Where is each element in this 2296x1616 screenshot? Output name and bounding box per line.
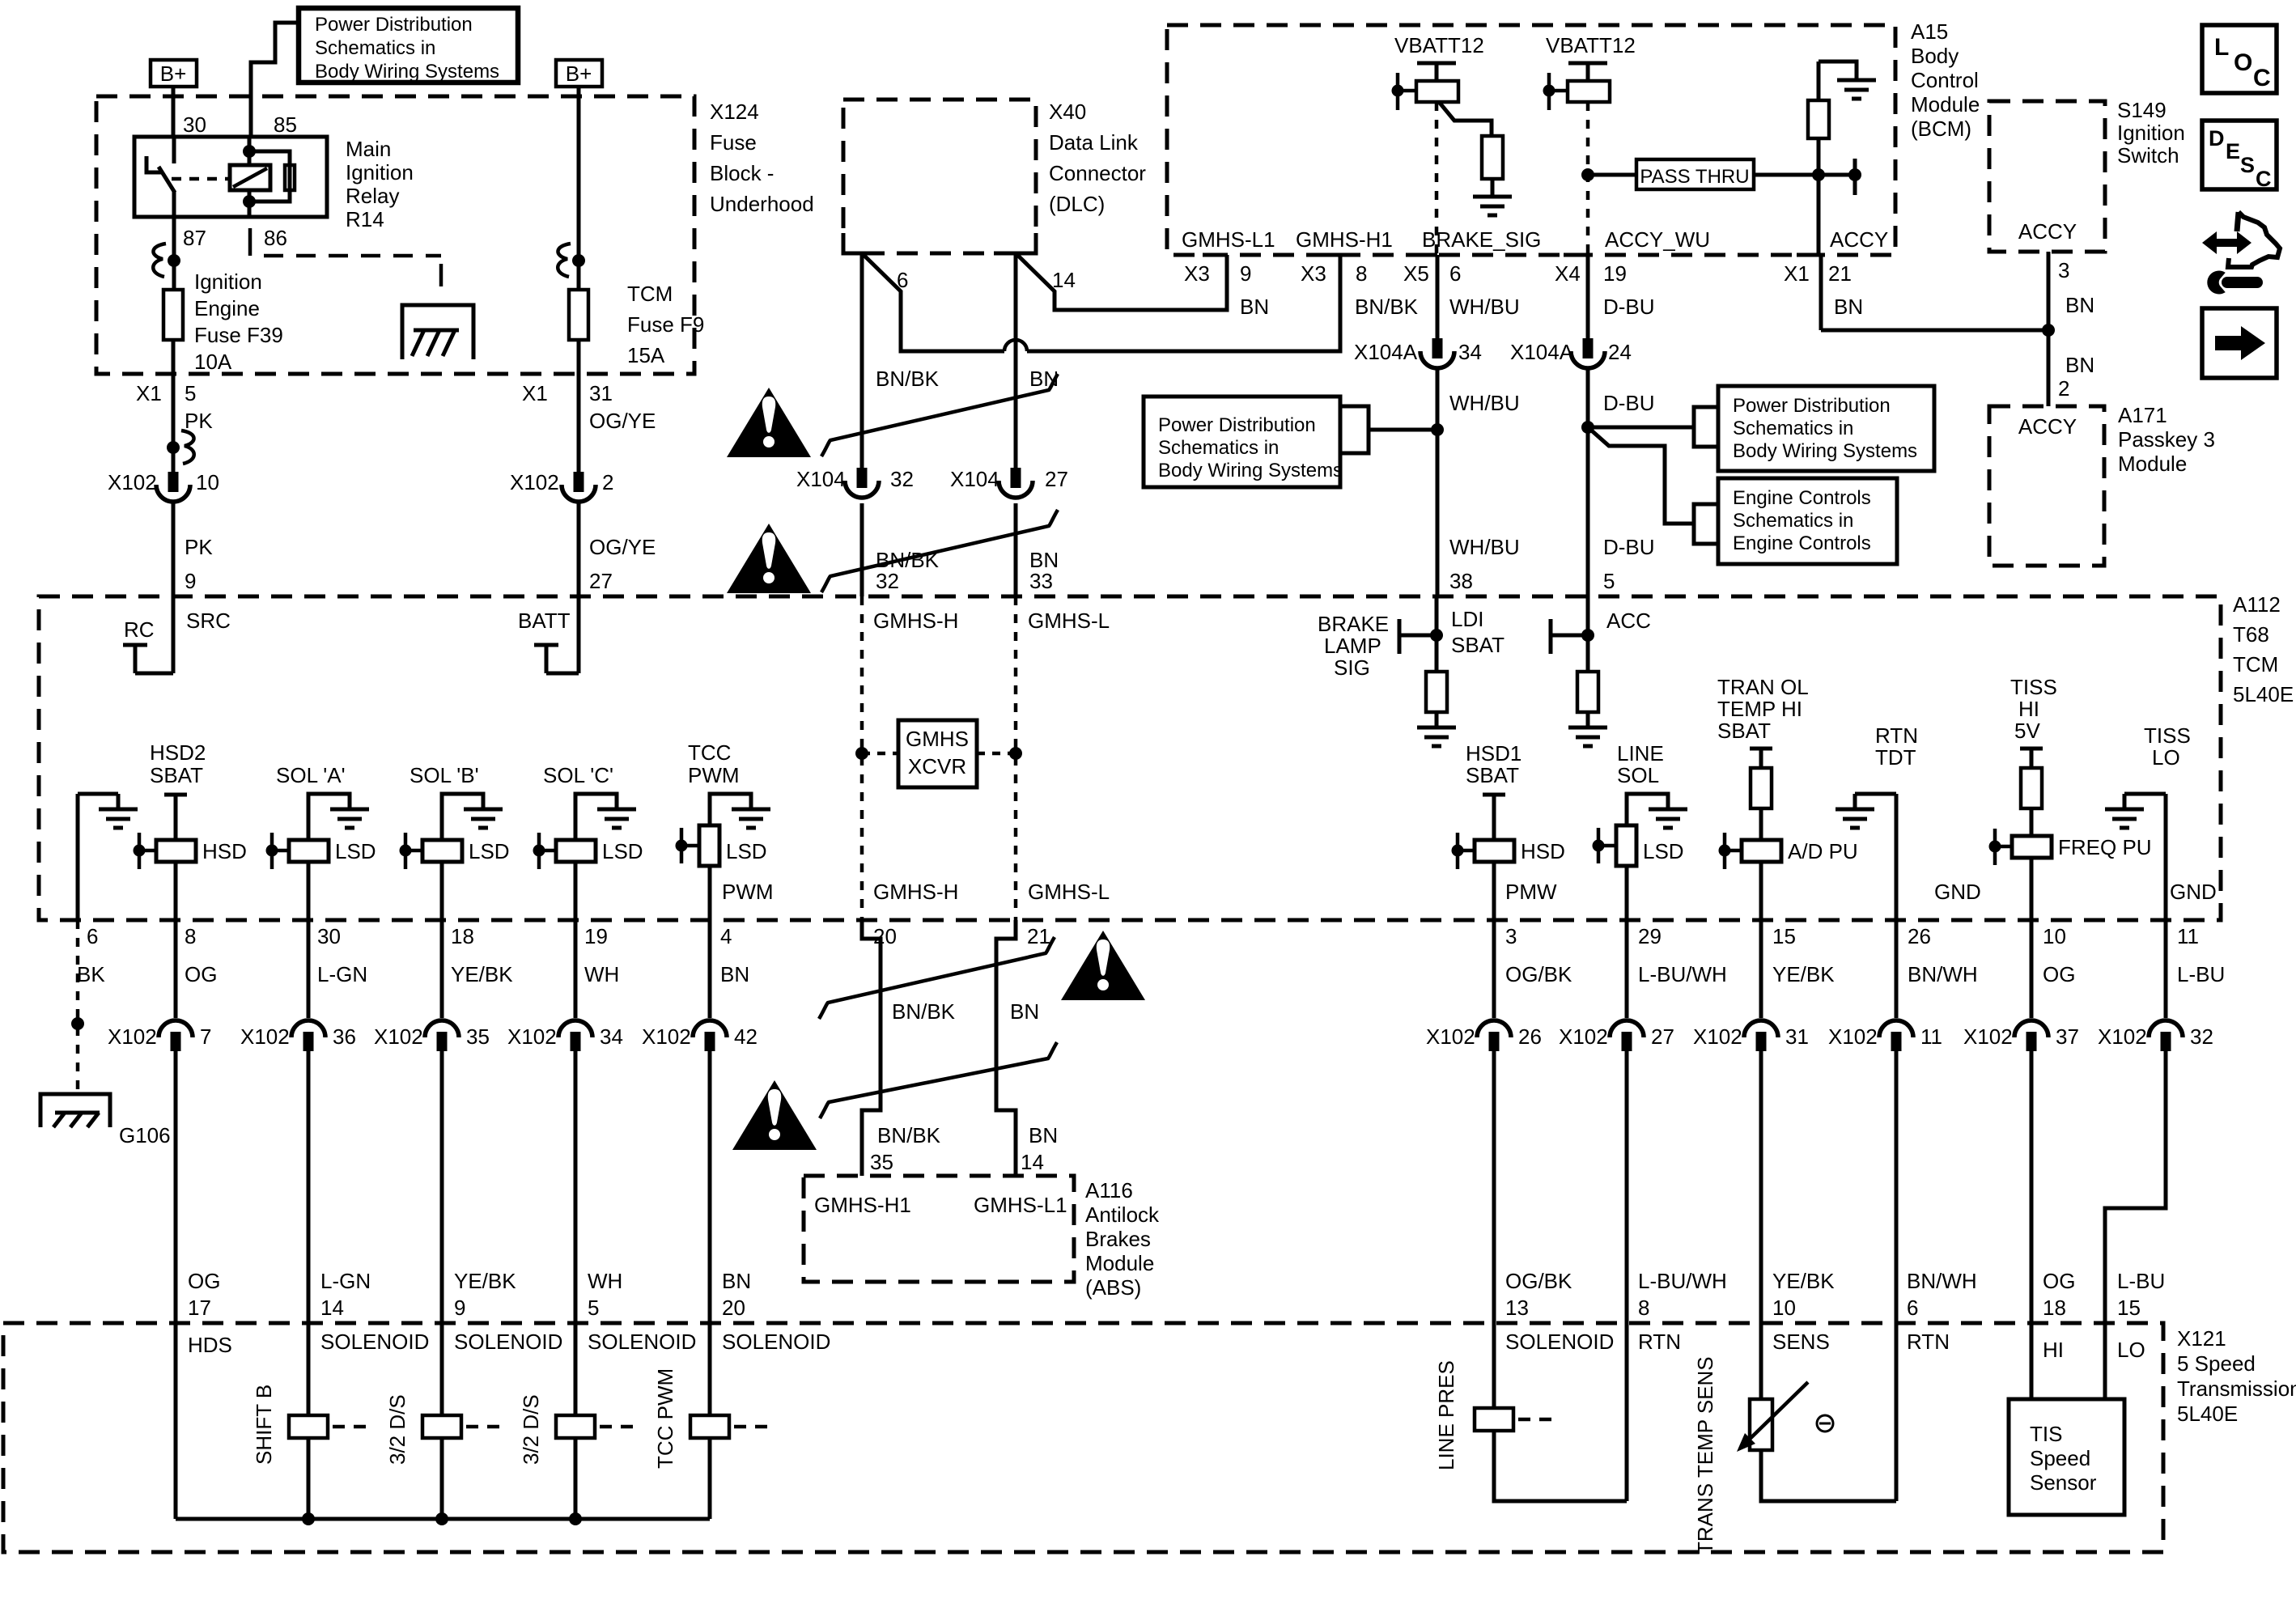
label SOL 'C': [543, 763, 613, 787]
svg-text:27: 27: [1045, 467, 1068, 491]
svg-text:SOL 'A': SOL 'A': [276, 763, 346, 787]
svg-text:18: 18: [451, 924, 474, 948]
svg-text:X3: X3: [1184, 261, 1210, 286]
svg-text:WH/BU: WH/BU: [1449, 535, 1520, 559]
svg-text:Schematics in: Schematics in: [1733, 418, 1853, 439]
svg-text:18: 18: [2043, 1296, 2066, 1320]
label X121 5 Speed Transmission 5L40E: [2177, 1326, 2296, 1426]
svg-text:GMHS-H: GMHS-H: [873, 880, 958, 904]
svg-text:RTN: RTN: [1638, 1330, 1681, 1354]
TCM pin name ACC: [1606, 609, 1651, 633]
svg-text:B+: B+: [160, 62, 187, 86]
svg-text:OG/YE: OG/YE: [589, 409, 656, 433]
wire L-BU/WH return: [1625, 1051, 1629, 1501]
wire B+ to TCM fuse F9: [577, 87, 581, 290]
relay R14 box: [134, 137, 327, 217]
svg-text:6: 6: [87, 924, 98, 948]
TCM BRAKE internal tap: [1399, 596, 1443, 672]
inline connector X102 pin 42: [642, 1020, 758, 1051]
wire WH to 3/2 D/S solenoid: [574, 1051, 578, 1415]
svg-text:GND: GND: [1934, 880, 1981, 904]
ACCY_WU internal dashed wire: [1586, 102, 1590, 255]
svg-text:31: 31: [1785, 1024, 1809, 1049]
connector labels X1 5 (left): [136, 381, 196, 405]
wire YE/BK to trans temp sensor: [1759, 1051, 1763, 1399]
svg-text:BK: BK: [77, 962, 105, 986]
TCM internal label PWM: [722, 880, 774, 904]
svg-text:OG: OG: [2043, 962, 2075, 986]
svg-text:86: 86: [264, 226, 287, 250]
svg-text:X40: X40: [1049, 100, 1086, 124]
label SOL 'A': [276, 763, 346, 787]
wire X104A-24 to TCM pin 5: [1581, 370, 1594, 596]
svg-text:X124: X124: [710, 100, 759, 124]
TCM ACC internal tap: [1551, 596, 1594, 672]
svg-text:3/2 D/S: 3/2 D/S: [519, 1394, 543, 1465]
TCM terminal RC: [123, 596, 173, 673]
svg-text:(ABS): (ABS): [1085, 1275, 1141, 1300]
svg-text:SRC: SRC: [186, 609, 231, 633]
wire OG TCM pin 8 to X102: [174, 920, 178, 1018]
svg-text:SOL 'B': SOL 'B': [410, 763, 479, 787]
PASS THRU line to ACCY node: [1754, 159, 1861, 195]
wire BN/WH TCM pin 26 to X102: [1895, 920, 1899, 1018]
svg-text:10: 10: [1772, 1296, 1796, 1320]
wire colors BN/BK 35 BN 14 (ABS): [870, 1123, 1058, 1174]
wire color PK 9: [185, 535, 213, 593]
wire L-GN to shift B solenoid: [307, 1051, 311, 1415]
svg-text:OG: OG: [188, 1269, 220, 1293]
svg-text:ACCY: ACCY: [1830, 227, 1888, 252]
svg-text:(BCM): (BCM): [1911, 117, 1971, 141]
svg-text:X1: X1: [1784, 261, 1810, 286]
svg-text:O: O: [2234, 49, 2252, 76]
svg-text:Ignition: Ignition: [194, 269, 262, 294]
wire colors BN/BK BN (lower): [892, 999, 1039, 1024]
svg-text:TISS: TISS: [2010, 675, 2057, 699]
svg-text:X104: X104: [796, 467, 846, 491]
svg-text:37: 37: [2056, 1024, 2079, 1049]
svg-text:SBAT: SBAT: [1466, 763, 1519, 787]
label A171 Passkey 3 Module: [2118, 403, 2215, 476]
BRAKE_SIG internal dashed wire: [1435, 102, 1439, 255]
driver LSD (SOL B): [400, 833, 510, 869]
wire X104A-34 to TCM pin 38: [1431, 370, 1444, 596]
svg-text:X102: X102: [510, 470, 559, 494]
svg-text:TCC PWM: TCC PWM: [653, 1368, 677, 1469]
DLC pin 14 tap to BCM GMHS-L1: [1016, 253, 1227, 310]
svg-text:A116: A116: [1085, 1178, 1133, 1202]
svg-text:14: 14: [1021, 1150, 1044, 1174]
svg-text:HI: HI: [2043, 1338, 2064, 1362]
svg-text:SOLENOID: SOLENOID: [1505, 1330, 1614, 1354]
icon vehicle with arrows: [2202, 212, 2280, 267]
svg-text:HSD1: HSD1: [1466, 741, 1521, 766]
SOL B ground loop: [442, 794, 503, 840]
splice clip on PK wire: [167, 431, 194, 464]
svg-text:3: 3: [1505, 924, 1517, 948]
SOL C ground loop: [575, 794, 636, 840]
wire OG/BK to line pres solenoid: [1492, 1051, 1496, 1408]
svg-text:Sensor: Sensor: [2030, 1470, 2097, 1495]
svg-text:X121: X121: [2177, 1326, 2226, 1351]
svg-text:Body Wiring Systems: Body Wiring Systems: [315, 61, 499, 83]
svg-text:OG/BK: OG/BK: [1505, 962, 1572, 986]
svg-text:HSD: HSD: [1521, 839, 1565, 863]
svg-text:Fuse: Fuse: [710, 130, 757, 155]
svg-text:27: 27: [589, 569, 613, 593]
svg-text:X104: X104: [950, 467, 999, 491]
wire 3/2 D/S second to rail: [574, 1438, 578, 1519]
svg-text:4: 4: [720, 924, 732, 948]
svg-text:OG/BK: OG/BK: [1505, 1269, 1572, 1293]
svg-text:Module: Module: [1911, 92, 1980, 117]
svg-text:GND: GND: [2170, 880, 2217, 904]
svg-text:YE/BK: YE/BK: [1772, 1269, 1835, 1293]
GMHS-H internal dashed wire: [860, 596, 864, 920]
wire BN from DLC pin 14: [1014, 253, 1018, 468]
svg-text:LDI: LDI: [1451, 607, 1483, 631]
svg-text:Power Distribution: Power Distribution: [1733, 395, 1891, 417]
svg-text:8: 8: [185, 924, 196, 948]
svg-text:SBAT: SBAT: [1451, 633, 1504, 657]
svg-text:X104A: X104A: [1354, 340, 1418, 364]
svg-text:5L40E: 5L40E: [2177, 1402, 2238, 1426]
wire color D-BU 5: [1603, 535, 1655, 593]
wire BCM X4-19 to X104A: [1586, 255, 1590, 338]
TCM internal label GND (RTN): [1934, 880, 1981, 904]
internal resistor to ground (BRAKE_SIG): [1439, 102, 1512, 215]
svg-text:33: 33: [1029, 569, 1053, 593]
label SOL 'B': [410, 763, 479, 787]
svg-text:BN: BN: [1010, 999, 1039, 1024]
svg-text:Schematics in: Schematics in: [1158, 437, 1279, 459]
svg-text:YE/BK: YE/BK: [1772, 962, 1835, 986]
svg-text:L-BU/WH: L-BU/WH: [1638, 962, 1727, 986]
splice clip at fuse F39 input: [153, 244, 180, 277]
svg-text:VBATT12: VBATT12: [1546, 33, 1636, 57]
svg-text:TEMP HI: TEMP HI: [1717, 697, 1802, 721]
wire HSD2 to TCM pin 8: [174, 862, 178, 920]
wire A/D PU to TCM pin 15: [1759, 862, 1763, 920]
svg-text:TCM: TCM: [627, 282, 673, 306]
svg-text:8: 8: [1356, 261, 1367, 286]
svg-text:Passkey 3: Passkey 3: [2118, 427, 2215, 452]
label Main Ignition Relay R14: [346, 137, 414, 231]
svg-text:X1: X1: [136, 381, 162, 405]
svg-text:42: 42: [734, 1024, 758, 1049]
wire shift B to rail: [307, 1438, 311, 1519]
HSD2 SBAT stub: [164, 795, 187, 840]
wire BCM X1-21 ACCY to junction: [1821, 255, 2055, 337]
svg-text:L-BU/WH: L-BU/WH: [1638, 1269, 1727, 1293]
TCM terminal BATT: [518, 596, 579, 673]
svg-text:TCM: TCM: [2233, 652, 2278, 677]
wire X104-32 to TCM pin 32: [860, 503, 864, 596]
svg-text:FREQ PU: FREQ PU: [2058, 835, 2152, 859]
svg-text:(DLC): (DLC): [1049, 192, 1105, 216]
TIS speed sensor box: [2009, 1399, 2124, 1515]
svg-text:Switch: Switch: [2117, 143, 2179, 168]
svg-text:Fuse F9: Fuse F9: [627, 312, 704, 337]
twisted pair marker (upper): [821, 374, 1058, 456]
warning triangle (pin 21): [1061, 931, 1145, 1000]
VBATT12 feed (left): [1392, 33, 1484, 110]
svg-text:A/D PU: A/D PU: [1788, 839, 1858, 863]
svg-text:X102: X102: [1963, 1024, 2013, 1049]
svg-text:E: E: [2226, 139, 2240, 163]
ABS pin names: [814, 1193, 1067, 1217]
svg-text:BN/BK: BN/BK: [876, 367, 940, 391]
warning triangle (upper): [727, 388, 811, 457]
svg-text:26: 26: [1908, 924, 1931, 948]
svg-text:TDT: TDT: [1875, 745, 1916, 770]
svg-text:Brakes: Brakes: [1085, 1227, 1151, 1251]
label S149 Ignition Switch: [2117, 98, 2185, 168]
fuse F39: [163, 290, 183, 340]
svg-text:2: 2: [602, 470, 613, 494]
inline connector X102 pin 26: [1426, 1020, 1542, 1051]
warning triangle (second): [727, 524, 811, 593]
svg-text:Body: Body: [1911, 44, 1959, 68]
svg-text:3: 3: [2058, 258, 2069, 282]
wire from relay coil 85 to reference box (staircase): [251, 23, 299, 137]
svg-text:LSD: LSD: [1643, 839, 1684, 863]
svg-text:GMHS-L1: GMHS-L1: [1182, 227, 1275, 252]
svg-text:L: L: [2214, 34, 2229, 61]
wire SOL C to TCM pin 19: [574, 862, 578, 920]
svg-text:Body Wiring Systems: Body Wiring Systems: [1158, 460, 1343, 481]
svg-text:X4: X4: [1555, 261, 1581, 286]
TISS LO wire to ground: [2105, 794, 2166, 920]
svg-text:X3: X3: [1301, 261, 1326, 286]
label HSD1 SBAT: [1466, 741, 1521, 787]
wire B+ to relay pin 30: [172, 87, 176, 137]
wire BN/BK from DLC pin 6: [860, 253, 864, 468]
TISS HI stub and resistor: [2020, 749, 2043, 836]
svg-text:X5: X5: [1403, 261, 1429, 286]
wire OG to 5-speed transmission: [174, 1051, 178, 1519]
inline connector X102 pin 32: [2098, 1020, 2213, 1051]
5 speed transmission X121 dashed box: [3, 1323, 2163, 1552]
A171 ACCY pin label: [2018, 414, 2077, 439]
wire YE/BK to 3/2 D/S solenoid: [440, 1051, 444, 1415]
svg-text:RTN: RTN: [1907, 1330, 1950, 1354]
svg-text:34: 34: [600, 1024, 623, 1049]
inline connector X104A pin 24: [1510, 338, 1632, 368]
driver LSD (TCC PWM): [676, 825, 767, 866]
svg-text:YE/BK: YE/BK: [454, 1269, 516, 1293]
TCM pin name SRC: [186, 609, 231, 633]
svg-text:OG/YE: OG/YE: [589, 535, 656, 559]
svg-text:HSD2: HSD2: [150, 740, 206, 765]
svg-text:7: 7: [200, 1024, 211, 1049]
svg-text:VBATT12: VBATT12: [1394, 33, 1484, 57]
label TISS LO: [2144, 723, 2191, 770]
svg-text:10: 10: [196, 470, 219, 494]
svg-text:C: C: [2253, 65, 2271, 91]
svg-text:BN: BN: [720, 962, 749, 986]
svg-text:20: 20: [722, 1296, 745, 1320]
svg-text:21: 21: [1828, 261, 1852, 286]
svg-text:Control: Control: [1911, 68, 1979, 92]
svg-text:X102: X102: [1693, 1024, 1742, 1049]
svg-text:A15: A15: [1911, 19, 1948, 44]
svg-text:Ignition: Ignition: [2117, 121, 2185, 145]
wire OG/BK TCM pin 3 to X102: [1492, 920, 1496, 1018]
inline connector X102 pin 7 (lower): [108, 1020, 211, 1051]
svg-text:BN/BK: BN/BK: [1355, 295, 1419, 319]
wire WH TCM pin 19 to X102: [574, 920, 578, 1018]
svg-text:Schematics in: Schematics in: [315, 37, 435, 59]
svg-text:Power Distribution: Power Distribution: [315, 14, 473, 36]
splice clip at fuse F9 input: [558, 244, 585, 277]
TCM internal label GND (TISS LO): [2170, 880, 2217, 904]
svg-text:9: 9: [454, 1296, 465, 1320]
chassis ground G106: [40, 1094, 171, 1147]
inline connector X104 pin 32: [796, 467, 914, 498]
svg-text:D-BU: D-BU: [1603, 535, 1655, 559]
internal resistor to ground (ACC): [1568, 672, 1607, 746]
BCM internal pin names: [1182, 227, 1888, 252]
svg-text:Transmission: Transmission: [2177, 1376, 2296, 1401]
svg-text:87: 87: [183, 226, 206, 250]
label BRAKE LAMP SIG: [1318, 612, 1389, 680]
twisted pair marker (lower first): [819, 937, 1055, 1019]
wire S149 ACCY to junction: [2048, 252, 2094, 330]
svg-text:TRAN OL: TRAN OL: [1717, 675, 1809, 699]
inline connector X102 pin 10: [108, 470, 219, 502]
svg-text:21: 21: [1027, 924, 1050, 948]
svg-text:3/2 D/S: 3/2 D/S: [385, 1394, 410, 1465]
driver HSD2: [134, 833, 247, 869]
svg-text:Power Distribution: Power Distribution: [1158, 414, 1316, 436]
driver LSD (LINE SOL): [1593, 825, 1684, 866]
svg-text:2: 2: [2058, 376, 2069, 401]
svg-text:BN: BN: [1029, 1123, 1058, 1147]
svg-text:WH: WH: [584, 962, 619, 986]
wire 3/2 D/S to rail: [440, 1438, 444, 1519]
wire YE/BK TCM pin 15 to X102: [1759, 920, 1763, 1018]
svg-text:27: 27: [1651, 1024, 1674, 1049]
svg-text:5V: 5V: [2014, 719, 2040, 743]
svg-text:Block -: Block -: [710, 161, 774, 185]
svg-text:D: D: [2209, 126, 2225, 151]
solenoid common rail: [176, 1512, 710, 1525]
line pres return loop: [1494, 1431, 1627, 1501]
solenoid SHIFT B: [252, 1385, 374, 1465]
body control module A15 dashed box: [1167, 25, 1895, 255]
svg-text:PK: PK: [185, 409, 213, 433]
dashed BK wire to G106: [71, 920, 84, 1094]
label RTN TDT: [1875, 723, 1918, 770]
svg-text:OG: OG: [2043, 1269, 2075, 1293]
svg-text:32: 32: [2190, 1024, 2213, 1049]
wire fuse F9 to X102 pin 2: [577, 340, 581, 472]
svg-text:SOLENOID: SOLENOID: [588, 1330, 696, 1354]
svg-text:LINE: LINE: [1617, 741, 1664, 766]
svg-text:5: 5: [1603, 569, 1615, 593]
svg-text:BRAKE_SIG: BRAKE_SIG: [1422, 227, 1541, 252]
wire relay 87 to fuse F39: [172, 217, 176, 290]
svg-text:19: 19: [1603, 261, 1627, 286]
svg-text:YE/BK: YE/BK: [451, 962, 513, 986]
twisted pair marker (lower second): [820, 1042, 1057, 1118]
svg-text:X102: X102: [108, 1024, 157, 1049]
label TCC PWM: [688, 740, 740, 787]
TCM pin names GMHS-H GMHS-L (top): [873, 609, 1110, 633]
svg-text:Engine: Engine: [194, 296, 260, 320]
svg-text:11: 11: [1920, 1024, 1942, 1049]
BCM bottom pin notches: [1203, 253, 1821, 257]
svg-text:RC: RC: [124, 617, 155, 642]
icon wrench: [2208, 271, 2257, 294]
svg-text:HSD: HSD: [202, 839, 247, 863]
svg-text:Module: Module: [1085, 1251, 1154, 1275]
svg-text:BRAKE: BRAKE: [1318, 612, 1389, 636]
svg-text:BATT: BATT: [518, 609, 571, 633]
svg-text:LSD: LSD: [469, 839, 510, 863]
svg-text:PMW: PMW: [1505, 880, 1557, 904]
svg-text:R14: R14: [346, 207, 384, 231]
svg-text:GMHS-L1: GMHS-L1: [974, 1193, 1067, 1217]
label TCM Fuse F9 15A: [627, 282, 704, 367]
svg-text:SBAT: SBAT: [150, 763, 203, 787]
driver LSD (SOL C): [533, 833, 643, 869]
wire BN TCM pin 4 to X102: [708, 920, 712, 1018]
svg-text:9: 9: [1240, 261, 1251, 286]
svg-text:WH/BU: WH/BU: [1449, 295, 1520, 319]
TRAN OL SBAT stub and resistor: [1750, 749, 1772, 840]
label X124 Fuse Block - Underhood: [710, 100, 814, 216]
svg-text:15A: 15A: [627, 343, 665, 367]
svg-text:Module: Module: [2118, 452, 2187, 476]
wire LINE SOL to TCM pin 29: [1625, 866, 1629, 920]
svg-text:20: 20: [873, 924, 897, 948]
wire color WH/BU 38: [1449, 535, 1520, 593]
driver LSD (SOL A): [266, 833, 376, 869]
label A112 T68 TCM 5L40E: [2233, 592, 2294, 706]
inline connector X102 pin 2: [510, 470, 613, 502]
label A116 Antilock Brakes Module (ABS): [1085, 1178, 1160, 1300]
svg-text:14: 14: [1052, 268, 1076, 292]
wire color PK (upper): [185, 409, 213, 433]
svg-text:L-BU: L-BU: [2177, 962, 2225, 986]
svg-text:15: 15: [1772, 924, 1796, 948]
svg-text:WH: WH: [588, 1269, 622, 1293]
inline connector X102 pin 35: [374, 1020, 490, 1051]
svg-text:SBAT: SBAT: [1717, 719, 1771, 743]
wire L-GN TCM pin 30 to X102: [307, 920, 311, 1018]
icon box LOC: [2202, 25, 2277, 93]
svg-text:Underhood: Underhood: [710, 192, 814, 216]
svg-text:32: 32: [890, 467, 914, 491]
svg-text:Schematics in: Schematics in: [1733, 510, 1853, 532]
relay actuator dashed link: [172, 177, 228, 181]
svg-text:S: S: [2240, 153, 2255, 177]
svg-text:LSD: LSD: [726, 839, 767, 863]
svg-text:BN: BN: [2065, 353, 2094, 377]
svg-text:SOLENOID: SOLENOID: [722, 1330, 830, 1354]
svg-text:19: 19: [584, 924, 608, 948]
passkey module A171 dashed box: [1989, 406, 2104, 566]
svg-text:GMHS-L: GMHS-L: [1028, 880, 1110, 904]
svg-text:G106: G106: [119, 1123, 171, 1147]
wire color BN/BK (upper): [876, 367, 940, 391]
svg-text:10: 10: [2043, 924, 2066, 948]
svg-text:X102: X102: [108, 470, 157, 494]
fuse F9: [569, 290, 588, 340]
